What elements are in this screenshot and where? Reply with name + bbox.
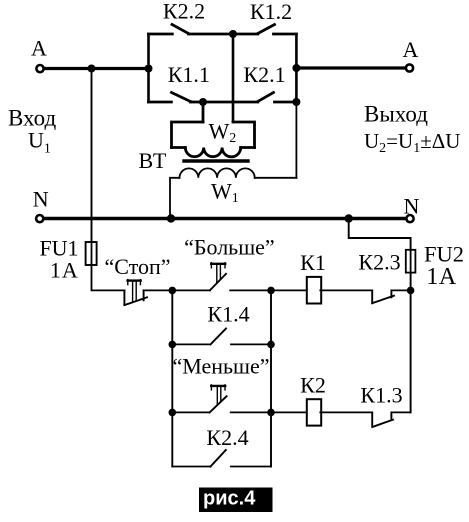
svg-text:К2.1: К2.1: [243, 62, 285, 87]
svg-text:1А: 1А: [426, 264, 457, 290]
svg-text:К1.3: К1.3: [360, 383, 402, 408]
svg-text:К2.2: К2.2: [163, 0, 205, 24]
svg-text:К1: К1: [300, 250, 326, 275]
svg-text:А: А: [31, 36, 47, 61]
svg-text:К2.4: К2.4: [206, 425, 248, 450]
svg-text:“Меньше”: “Меньше”: [172, 354, 269, 379]
svg-text:К1.4: К1.4: [207, 302, 249, 327]
svg-text:рис.4: рис.4: [203, 488, 256, 510]
svg-text:1А: 1А: [50, 258, 79, 283]
svg-text:N: N: [33, 186, 49, 211]
svg-text:К1.2: К1.2: [250, 0, 292, 24]
svg-text:U2=U1±ΔU: U2=U1±ΔU: [364, 129, 460, 156]
svg-text:ВТ: ВТ: [139, 148, 167, 173]
svg-text:N: N: [404, 194, 420, 219]
svg-text:К2: К2: [300, 373, 326, 398]
svg-text:А: А: [402, 37, 418, 62]
svg-text:“Стоп”: “Стоп”: [104, 254, 170, 279]
svg-text:К2.3: К2.3: [358, 250, 400, 275]
svg-text:“Больше”: “Больше”: [184, 235, 275, 260]
svg-text:FU2: FU2: [424, 242, 464, 267]
svg-text:К1.1: К1.1: [168, 62, 210, 87]
svg-text:Выход: Выход: [364, 102, 428, 127]
